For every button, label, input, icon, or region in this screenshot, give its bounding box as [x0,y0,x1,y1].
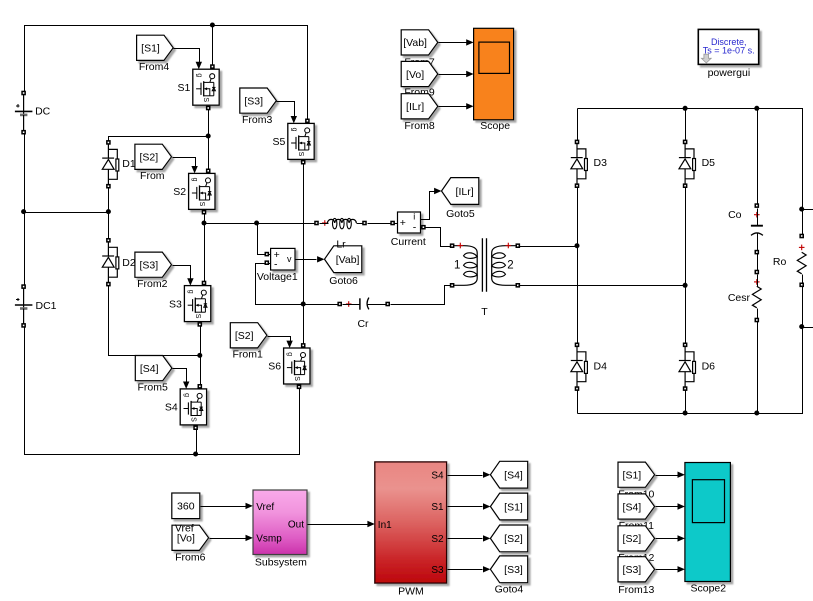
wire Cr to transformer primary bottom [391,286,453,305]
svg-text:Subsystem: Subsystem [255,556,307,568]
goto tag [S4] [490,461,527,488]
battery DC1 [15,289,33,324]
svg-text:[S4]: [S4] [623,501,642,513]
node junction bottom rail leg2 [683,411,688,416]
wire S2 source to S3 drain [204,213,206,284]
svg-text:[Vab]: [Vab] [403,37,427,49]
node junction top rail leg2 [683,106,688,111]
svg-text:Cr: Cr [357,318,369,330]
subsystem block PWM [375,462,447,598]
wire Lr to Current [368,223,399,225]
wire PWM S1 to goto [448,506,483,508]
wire S3 source to junction [200,325,202,387]
svg-text:Scope2: Scope2 [690,582,726,594]
svg-text:S4: S4 [165,402,178,414]
svg-text:D2: D2 [122,257,136,269]
svg-text:D4: D4 [594,360,608,372]
node junction leg1 D1 tap [206,134,211,139]
svg-text:[Vab]: [Vab] [336,254,360,266]
svg-text:1: 1 [454,259,460,271]
wire Co to Cesr [757,253,759,273]
scope Scope [474,28,514,132]
node junction top rail [210,23,215,28]
wire 360 to Subsystem Vref [201,506,246,508]
wire From7 to Scope [439,42,467,44]
svg-text:From3: From3 [242,114,272,126]
from tag From5 [S4] [135,356,172,394]
node A junction S2-S3 mid [202,221,207,226]
node junction Ro bottom [799,324,804,329]
svg-text:[S1]: [S1] [141,43,160,55]
svg-text:From5: From5 [138,382,168,394]
diode D2 [102,242,119,282]
inductor Lr [314,218,367,228]
goto tag [S2] [490,525,527,552]
from tag [S4] (From11) [618,494,655,532]
diode D3 [571,144,588,184]
svg-text:D6: D6 [702,360,716,372]
wire D2 cathode down to S3-S4 midpoint [109,285,201,356]
svg-text:[S1]: [S1] [504,501,523,513]
wire From1 to S6 gate [268,337,291,342]
svg-text:D3: D3 [594,157,608,169]
svg-text:In1: In1 [378,520,392,531]
wire From6 to Subsystem Vsmp [210,538,246,540]
node junction left rail [21,209,26,214]
goto tag [S1] [490,493,527,520]
from tag [S1] (From10) [618,462,655,500]
transistor S1 [193,69,219,105]
wire rectifier top rail to Ro branch [578,109,803,210]
node junction top rail Co [754,106,759,111]
wire D1 branch to leg1 [109,137,209,143]
wire Subsystem Out to PWM In1 [308,524,368,526]
svg-text:S2: S2 [173,186,186,198]
diode D5 [679,144,696,184]
wire From4 to S1 gate [174,49,200,63]
wire node A to Lr [205,223,317,225]
svg-text:[S2]: [S2] [623,533,642,545]
svg-text:DC1: DC1 [36,300,57,312]
svg-text:S6: S6 [268,361,281,373]
diode D1 [102,144,119,184]
svg-text:T: T [481,306,488,318]
wire output stub top [803,209,813,211]
transistor S6 [284,348,310,384]
scope Scope2 [685,463,731,595]
svg-text:Scope: Scope [480,120,510,132]
svg-text:[Vo]: [Vo] [406,69,424,81]
node junction D1-D2 mid [106,209,111,214]
svg-text:S3: S3 [431,565,444,576]
powergui block [698,29,758,78]
node junction bottom rail [193,452,198,457]
svg-text:[S1]: [S1] [623,470,642,482]
node junction Ro top [799,207,804,212]
svg-text:[ILr]: [ILr] [456,186,474,198]
svg-text:Vsmp: Vsmp [256,534,282,545]
transformer T [450,238,520,318]
from tag From9 [Vo] [401,61,438,98]
wire top rail DC+ to S5 drain [25,26,308,122]
svg-text:From4: From4 [139,61,169,73]
from tag From2 [S3] [135,252,172,290]
svg-text:-: - [274,259,278,271]
wire Current i output to Goto5 [421,192,435,220]
from tag From8 [ILr] [401,94,438,132]
wire From9 to Scope [439,74,467,76]
wire From to S2 gate [173,158,196,167]
svg-text:D1: D1 [122,158,136,170]
svg-text:Vref: Vref [175,522,194,534]
from tag From7 [Vab] (label hidden) [401,30,438,69]
wire Current minus to transformer primary top [421,228,453,247]
wire left rail to D1-D2 midpoint [25,212,109,214]
diode D4 [571,347,588,387]
svg-text:-: - [413,221,417,233]
wire From3 to S5 gate [277,102,295,117]
svg-text:[ILr]: [ILr] [406,101,424,113]
svg-text:i: i [413,212,415,222]
wire PWM S2 to goto [448,538,483,540]
wire Ro bottom lead [802,286,804,328]
svg-text:D5: D5 [702,157,716,169]
wire From13 to Scope2 [656,569,678,571]
svg-text:S4: S4 [431,470,444,481]
wire From2 to S3 gate [173,266,191,279]
svg-text:[S3]: [S3] [244,95,263,107]
wire Co branch top [757,109,759,207]
from tag From13 [S3] [618,557,655,596]
svg-text:Goto6: Goto6 [329,275,358,287]
transistor S5 [288,123,314,159]
goto tag Goto6 [Vab] [325,246,362,287]
goto tag Goto4 [S3] [490,556,527,595]
transistor S4 [180,389,206,425]
wire transformer secondary bottom to rectifier leg2 [519,285,686,287]
diode D6 [679,347,696,387]
wire rectifier bottom rail to Ro branch [578,328,803,414]
svg-text:Current: Current [391,236,426,248]
svg-text:[S2]: [S2] [139,152,158,164]
node junction S3-S4 mid [197,353,202,358]
wire left rail DC- to DC1+ [24,133,26,288]
svg-text:S1: S1 [431,502,444,513]
svg-text:Voltage1: Voltage1 [257,271,298,283]
wire leg2 S5 source to S6 drain [303,163,305,346]
svg-text:+: + [400,217,406,229]
capacitor Co [728,203,763,254]
svg-text:powergui: powergui [708,67,751,79]
wire leg2 verticals [685,109,687,414]
wire From11 to Scope2 [656,506,678,508]
svg-text:2: 2 [507,259,513,271]
svg-text:Out: Out [288,520,304,531]
wire D1 cathode to D2 anode [108,187,110,241]
svg-text:From2: From2 [137,278,167,290]
wire Voltage1 plus tap [258,224,272,255]
svg-text:S2: S2 [431,534,444,545]
current measurement Current [391,212,426,248]
svg-text:DC: DC [35,105,51,117]
wire bottom rail DC1- to S6 source [25,326,300,455]
wire S1 source to S2 drain [208,109,210,172]
constant block 360 (name Vref) [172,493,200,519]
wire Voltage1 v output to Goto6 [296,259,317,261]
svg-text:[S2]: [S2] [504,533,523,545]
svg-text:From6: From6 [175,552,205,564]
wire PWM S4 to goto [448,475,483,477]
svg-text:PWM: PWM [398,586,424,598]
capacitor Cr [337,298,390,330]
svg-text:[S3]: [S3] [504,564,523,576]
svg-text:[S2]: [S2] [235,330,254,342]
transistor S2 [189,173,215,209]
node junction leg2 Cr tap [301,302,306,307]
svg-text:Lr: Lr [336,238,346,250]
wire PWM S3 to goto [448,569,483,571]
wire Cesr bottom to rail [757,321,759,414]
svg-text:From: From [140,170,165,182]
transistor S3 [184,286,210,322]
from tag [S2] (From12) [618,526,655,564]
svg-text:v: v [287,254,292,264]
svg-text:S5: S5 [272,136,285,148]
wire S1 drain stub [212,26,214,68]
svg-text:[S4]: [S4] [504,470,523,482]
svg-text:[S4]: [S4] [140,363,159,375]
svg-text:Ts = 1e-07 s.: Ts = 1e-07 s. [703,46,755,56]
node junction bottom rail Co [754,411,759,416]
svg-text:Co: Co [728,209,742,221]
from tag From [S2] [135,144,172,182]
wire output stub bottom [803,327,813,329]
from tag From4 [S1] [137,35,174,73]
from tag From3 [S3] [240,88,277,126]
wire From12 to Scope2 [656,538,678,540]
wire S4 source to bottom rail [196,429,198,455]
resistor Cesr [728,270,761,323]
from tag From6 [Vo] [172,525,209,563]
wire leg1 verticals [577,109,579,414]
wire transformer secondary top to rectifier leg1 [519,246,578,248]
wire From8 to Scope [439,106,467,108]
subsystem block Subsystem [253,490,307,568]
svg-text:Ro: Ro [773,256,787,268]
svg-text:[S3]: [S3] [139,260,158,272]
wire Voltage1 minus to Cr node [256,264,341,305]
svg-text:From1: From1 [233,349,263,361]
voltage measurement Voltage1 [257,248,298,283]
resistor Ro [773,234,806,287]
svg-text:[S3]: [S3] [623,564,642,576]
svg-text:Goto4: Goto4 [495,583,524,595]
svg-text:From8: From8 [404,120,434,132]
battery DC [15,95,33,130]
svg-text:S1: S1 [177,82,190,94]
node junction Vab plus tap [254,221,259,226]
svg-text:Vref: Vref [256,502,274,513]
wire From10 to Scope2 [656,475,678,477]
svg-text:S3: S3 [169,298,182,310]
wire Ro top lead [802,210,804,237]
svg-text:Goto5: Goto5 [446,208,475,220]
svg-text:From13: From13 [618,584,654,596]
svg-text:Cesr: Cesr [728,292,751,304]
svg-text:360: 360 [177,501,195,513]
from tag From1 [S2] [230,323,267,361]
goto tag Goto5 [ILr] [442,178,479,220]
wire From5 to S4 gate [173,369,187,383]
